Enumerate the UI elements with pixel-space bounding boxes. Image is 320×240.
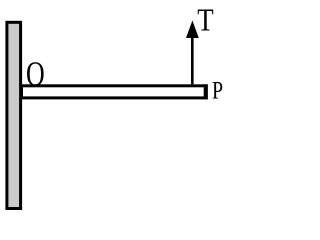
svg-text:T: T bbox=[197, 3, 213, 38]
svg-text:O: O bbox=[26, 55, 45, 94]
svg-text:P: P bbox=[212, 76, 223, 104]
